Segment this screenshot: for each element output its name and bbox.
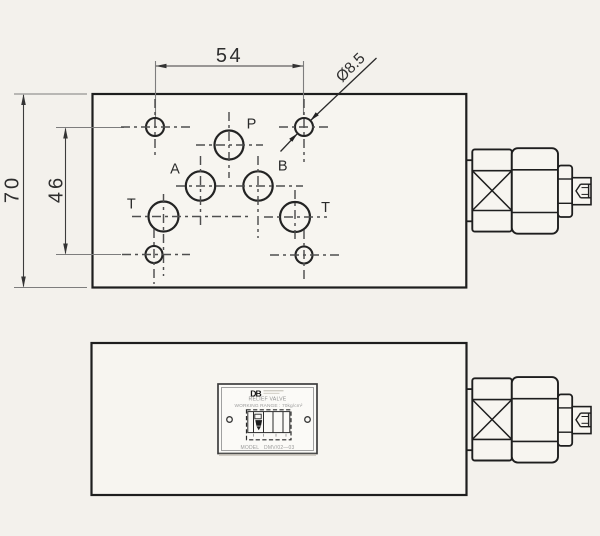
symbol cell divider 2 — [263, 412, 265, 433]
centerlines port T right — [264, 190, 327, 243]
centerlines mounting hole top-right — [279, 99, 331, 162]
symbol cell divider 4 — [282, 412, 284, 433]
hex body — [512, 377, 558, 463]
dimension 46 arrow top — [63, 128, 68, 139]
centerline horizontal through A and B — [176, 185, 303, 187]
svg-text:WORKING RANGE : 70kg/cm²: WORKING RANGE : 70kg/cm² — [235, 403, 303, 409]
dimension 46 line — [65, 129, 67, 254]
dimension 54 line — [156, 65, 303, 67]
symbol cell divider 1 — [253, 412, 255, 433]
dimension 70 extension line top — [14, 93, 87, 95]
dimension 54 extension line right — [303, 61, 305, 115]
symbol port ticks — [254, 434, 287, 437]
logo side text — [264, 390, 284, 391]
neck stub lines — [466, 159, 472, 161]
leader arrow upper — [310, 112, 318, 120]
dimension 46 extension line bottom — [56, 254, 121, 256]
dimension 70 line — [23, 95, 25, 287]
hex socket — [576, 413, 581, 427]
symbol dashed boundary — [247, 410, 292, 440]
symbol cell divider 3 — [272, 412, 274, 433]
centerlines mounting hole bottom-right — [270, 230, 340, 280]
leader line dia 8.5 lower segment — [281, 133, 298, 151]
adjusting screw — [572, 407, 591, 434]
port T hole right — [280, 202, 310, 232]
svg-text:RELIEF VALVE: RELIEF VALVE — [249, 397, 287, 403]
centerline vertical port A — [200, 156, 202, 228]
locknut — [558, 394, 572, 446]
svg-text:T: T — [321, 200, 330, 216]
mounting hole top-right — [295, 118, 313, 136]
centerlines mounting hole top-left — [121, 99, 190, 158]
port B hole — [243, 171, 272, 200]
symbol valve element box — [255, 414, 261, 419]
nameplate screw right — [305, 417, 311, 423]
dimension 54 arrow right — [293, 64, 304, 69]
centerlines port P — [196, 112, 263, 178]
port T hole left — [149, 202, 179, 232]
dimension 54 extension line left — [155, 61, 157, 118]
hex socket — [576, 184, 581, 198]
mounting hole top-left — [146, 118, 164, 136]
port A hole — [186, 171, 215, 200]
leader arrow lower — [289, 133, 297, 141]
nameplate shadow — [219, 454, 316, 456]
dimension 54 arrow left — [156, 64, 167, 69]
dimension 70 extension line bottom — [14, 287, 87, 289]
svg-text:46: 46 — [45, 175, 67, 203]
mounting hole bottom-right — [296, 247, 313, 264]
dimension 46 extension line top — [56, 127, 124, 129]
svg-text:B: B — [278, 158, 288, 174]
leader line dia 8.5 upper segment — [310, 58, 376, 121]
svg-text:A: A — [170, 162, 180, 178]
symbol body rectangle — [248, 412, 290, 433]
nameplate screw left — [227, 417, 233, 423]
solenoid block with X — [472, 149, 512, 231]
dimension 70 arrow bottom — [21, 277, 26, 288]
symbol arrow — [257, 426, 262, 430]
svg-text:P: P — [247, 117, 257, 133]
svg-text:MODEL DMV/02—03: MODEL DMV/02—03 — [241, 445, 295, 451]
centerlines port T left — [132, 194, 248, 276]
valve body top view — [93, 94, 467, 288]
dimension 46 arrow bottom — [63, 244, 68, 255]
neck stub lines — [466, 388, 472, 390]
hex body — [512, 148, 558, 234]
nameplate inner frame — [222, 388, 314, 451]
adjusting screw — [572, 178, 591, 205]
locknut — [558, 166, 572, 218]
port P hole — [215, 131, 244, 160]
dimension 70 arrow top — [21, 94, 26, 105]
svg-text:54: 54 — [216, 45, 243, 67]
centerlines mounting hole bottom-left — [122, 229, 190, 284]
valve body side view — [92, 343, 467, 495]
solenoid block with X — [472, 378, 512, 460]
symbol poppet filled — [255, 420, 262, 426]
svg-text:T: T — [127, 197, 136, 213]
svg-text:70: 70 — [1, 175, 23, 203]
mounting hole bottom-left — [146, 246, 163, 263]
centerline vertical port B — [257, 156, 259, 238]
nameplate outer frame — [218, 384, 317, 454]
